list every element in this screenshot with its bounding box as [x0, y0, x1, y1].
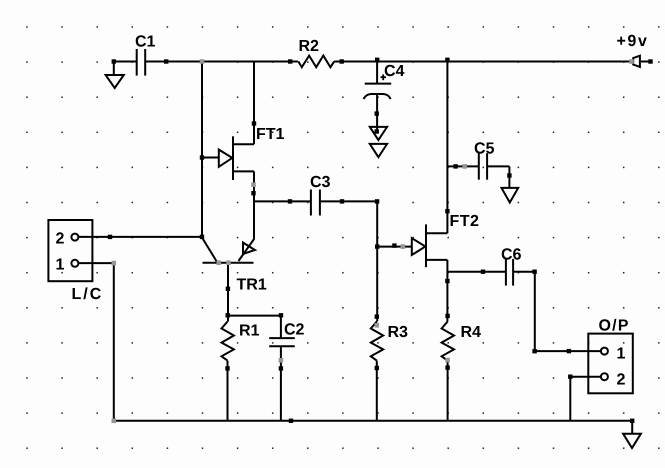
wire L/C pin1 drop	[113, 263, 115, 421]
label C1	[136, 35, 155, 46]
junction R2 left pin	[288, 59, 292, 63]
junction FT2 source / C6 node	[445, 279, 449, 283]
junction C4 ground lead	[375, 129, 379, 133]
junction +9v terminal stub	[648, 59, 652, 63]
wire C6 to O/P pin 1	[513, 272, 601, 351]
junction R3 top pin	[375, 314, 379, 318]
node handle bottom rail left end	[112, 419, 117, 424]
wire FT2 drain node to C5	[447, 165, 478, 167]
+9v terminal arrow	[633, 56, 649, 67]
junction C6-output corner bottom	[532, 349, 536, 353]
capacitor C6	[506, 259, 513, 286]
junction C3 drop / FT2 gate / R3 node	[375, 244, 379, 248]
ground (C5)	[502, 188, 519, 203]
wire O/P pin2 drop	[569, 377, 571, 421]
wire R4 bottom to ground rail	[447, 361, 449, 421]
capacitor C5	[479, 153, 487, 180]
junction C1 / input ground	[112, 59, 116, 63]
pin 1 of L/C	[71, 260, 78, 267]
wire riser A (top rail to TR1 collector)	[201, 62, 203, 237]
label FT2	[451, 215, 479, 226]
label C4	[385, 65, 405, 76]
capacitor C4	[364, 62, 392, 134]
wire O/P pin 2	[570, 376, 601, 378]
junction R1 bottom pin	[225, 366, 229, 370]
wire FT2 source node to C6	[447, 271, 506, 273]
capacitor C3	[311, 190, 320, 216]
junction dots (black)	[108, 58, 653, 423]
junction riser A / L-C pin2 wire corner	[200, 235, 204, 239]
node handle L/C pin1 wire	[112, 261, 117, 266]
junction C5 left lead	[453, 164, 457, 168]
node handle R3 top	[375, 323, 380, 328]
node handle R4 bottom	[445, 358, 450, 363]
junction R4 bottom pin	[445, 365, 449, 369]
junction FT1 source / C3 wire	[251, 191, 255, 195]
junction R2 right pin	[340, 59, 344, 63]
resistor R4	[442, 322, 454, 361]
wire riser FT1 drain	[253, 62, 255, 145]
transistor FT2	[412, 224, 448, 267]
transistor TR1	[202, 238, 255, 322]
label 2	[56, 232, 64, 243]
label C2	[285, 323, 304, 334]
wire C5 to ground stub	[487, 166, 509, 188]
resistor R2	[298, 56, 334, 68]
junction bottom rail / C2	[289, 419, 293, 423]
label 1	[57, 259, 65, 270]
wire C3 to node B	[320, 200, 377, 202]
wire riser FT2 drain (top rail down)	[446, 62, 448, 234]
wire top rail left	[145, 61, 298, 63]
resistor R3	[371, 322, 383, 361]
junction top rail / FT2 drain riser	[445, 58, 449, 62]
junction C3 left pin	[288, 199, 292, 203]
wire L/C pin 1	[78, 262, 114, 264]
wire FT1 source drop	[253, 171, 255, 238]
junction top rail / C4	[375, 58, 379, 62]
wire R1 bottom to ground rail	[227, 361, 229, 421]
junction C5 ground lead	[507, 173, 511, 177]
junction TR1 base lead	[226, 287, 230, 291]
pin 1 of O/P	[601, 348, 608, 355]
ground (bottom right)	[623, 421, 641, 448]
node handle FT2 gate wire	[401, 244, 406, 249]
label C5	[475, 142, 494, 153]
junction O/P pin1 wire	[567, 349, 571, 353]
wire FT2 source drop to R4	[446, 260, 448, 322]
node handle FT1 source drop	[251, 182, 256, 187]
node handle C2 bottom lead	[279, 358, 284, 363]
wire C3 to FT2 gate / R3	[377, 201, 412, 321]
wire L/C pin 2 to TR1 collector	[78, 236, 202, 238]
node handle +9v arrow tip	[629, 59, 634, 64]
label +9v	[617, 35, 647, 46]
junction bottom rail / ground corner	[630, 419, 634, 423]
label TR1	[237, 279, 267, 290]
node handle TR1 bar left	[217, 260, 222, 265]
wire TR1 base node to C2	[228, 316, 281, 339]
label L/C	[73, 287, 101, 299]
junction C2 bottom pin	[279, 366, 283, 370]
junction C6 left pin	[481, 270, 485, 274]
label R3	[389, 326, 408, 337]
label R4	[462, 326, 481, 337]
junction top rail node 1	[164, 59, 168, 63]
ground (C1 input ground)	[106, 62, 124, 89]
junction C3 right pin	[340, 199, 344, 203]
junction R3 bottom pin	[375, 366, 379, 370]
node handle C5 wire	[462, 164, 467, 169]
label FT1	[257, 128, 284, 139]
node handle TR1 bar base	[226, 260, 231, 265]
junction O/P pin2 corner	[568, 375, 572, 379]
junction FT2 gate wire	[392, 243, 396, 247]
capacitor C2	[269, 338, 295, 346]
pin 2 of O/P	[601, 373, 608, 380]
wire bottom rail	[114, 420, 632, 422]
connector O/P	[588, 334, 633, 394]
label 1	[618, 348, 626, 359]
junction R1/C2 branch left	[226, 313, 230, 317]
junction C3-right corner	[375, 199, 379, 203]
junction C6-output corner top	[532, 270, 536, 274]
resistor R1	[222, 322, 234, 361]
junction riser A / FT1 gate	[200, 155, 204, 159]
junction FT1 drain pin	[252, 121, 256, 125]
label R1	[240, 325, 259, 336]
label C6	[502, 248, 521, 259]
junction R1/C2 branch right corner	[279, 313, 283, 317]
junction L/C pin2 wire	[108, 235, 112, 239]
capacitor C1	[114, 49, 145, 76]
junction C4 lower lead	[375, 111, 379, 115]
transistor FT1	[202, 136, 254, 180]
junction R4 top pin	[445, 314, 449, 318]
label O/P	[599, 319, 628, 331]
pin 2 of L/C	[71, 234, 78, 241]
label C3	[311, 176, 330, 187]
junction FT2 drain pin	[445, 209, 449, 213]
wire R3 bottom to ground rail	[376, 361, 378, 421]
ground (double triangle under C4)	[370, 127, 387, 157]
connector L/C	[48, 220, 92, 281]
wire top rail right	[334, 61, 630, 63]
node handle top rail / riser A	[200, 59, 205, 64]
label R2	[300, 40, 319, 51]
wire C2 bottom to ground rail	[280, 346, 282, 421]
label 2	[617, 373, 625, 384]
wire FT1 source node to C3	[254, 200, 311, 202]
junction handles (gray)	[112, 59, 634, 423]
